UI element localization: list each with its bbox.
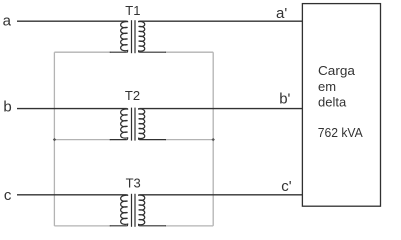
net gray wiring group <box>54 52 213 226</box>
svg-text:a: a <box>3 13 12 30</box>
T2 core line 1 <box>131 108 133 141</box>
svg-text:T1: T1 <box>125 3 140 18</box>
svg-text:b': b' <box>279 90 290 107</box>
svg-text:b: b <box>3 99 11 116</box>
T3 primary bottom lead <box>110 225 127 227</box>
T1 secondary winding <box>139 21 145 52</box>
svg-text:c': c' <box>281 178 292 195</box>
wire: right vertical bus <box>212 52 214 226</box>
wire a <box>17 20 127 22</box>
T1 core line 2 <box>134 20 136 53</box>
T3 core line 2 <box>134 194 136 227</box>
wire c <box>17 194 127 196</box>
junction dot right <box>212 138 215 141</box>
T2 core line 2 <box>134 108 136 141</box>
transformer T2 <box>110 108 166 141</box>
wire b' <box>139 108 302 110</box>
wire: T1 secondary bottom net <box>165 51 213 53</box>
svg-text:em: em <box>318 79 336 94</box>
wire: T3 primary bottom net <box>54 225 111 227</box>
T1 core line 1 <box>131 20 133 53</box>
wire c' <box>139 194 302 196</box>
wire: T3 secondary bottom net <box>165 225 213 227</box>
T3 primary winding <box>121 195 128 226</box>
wire: T2 primary bottom net <box>54 139 111 141</box>
transformer T3 <box>110 194 166 227</box>
T3 secondary winding <box>139 195 145 226</box>
T1 secondary bottom lead <box>139 51 166 53</box>
wire: T1 primary bottom net <box>54 51 111 53</box>
T2 primary bottom lead <box>110 139 127 141</box>
T3 core line 1 <box>131 194 133 227</box>
svg-text:delta: delta <box>318 95 347 110</box>
svg-text:c: c <box>4 187 12 204</box>
T1 primary bottom lead <box>110 51 127 53</box>
T2 secondary winding <box>139 109 145 140</box>
svg-text:T3: T3 <box>126 176 141 191</box>
svg-text:762 kVA: 762 kVA <box>318 125 363 140</box>
junction dot left <box>53 138 56 141</box>
T1 primary winding <box>121 21 128 52</box>
transformer T1 <box>110 20 166 53</box>
T3 secondary bottom lead <box>139 225 166 227</box>
T2 secondary bottom lead <box>139 139 166 141</box>
wire: left vertical bus <box>53 52 55 226</box>
svg-text:T2: T2 <box>125 88 140 103</box>
load box: Carga em delta <box>302 4 380 207</box>
dark wires <box>17 21 302 195</box>
T2 primary winding <box>121 109 128 140</box>
svg-text:Carga: Carga <box>318 63 356 78</box>
svg-text:a': a' <box>276 5 287 22</box>
wire b <box>17 108 127 110</box>
wire: T2 secondary bottom net <box>165 139 213 141</box>
wire a' <box>139 20 302 22</box>
